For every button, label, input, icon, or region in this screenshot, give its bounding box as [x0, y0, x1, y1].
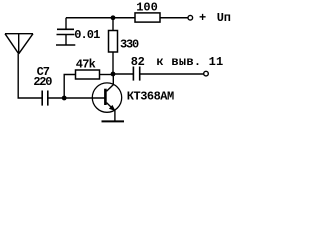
svg-text:82: 82 [131, 55, 145, 69]
transistor Q1 circle [92, 83, 121, 112]
svg-text:100: 100 [136, 1, 158, 15]
node base junction [62, 96, 67, 101]
wire 47k left lead down [64, 75, 75, 99]
svg-text:220: 220 [33, 75, 52, 89]
ground bar under emitter [102, 120, 125, 122]
capacitor C7 [42, 91, 48, 106]
wire C7 to base [49, 97, 106, 99]
transistor Q1 base bar [104, 89, 107, 105]
node top rail junction [111, 15, 116, 20]
wire top rail [66, 17, 135, 19]
capacitor 82 [133, 67, 139, 81]
capacitor 0.01 [57, 29, 75, 34]
wire emitter to ground [114, 111, 116, 121]
terminal +Un [188, 15, 193, 20]
svg-text:+: + [199, 11, 206, 25]
capacitor 0.01 bottom lead [65, 35, 67, 45]
antenna W1 [5, 34, 33, 54]
svg-text:Uп: Uп [217, 11, 231, 25]
terminal output [204, 71, 209, 76]
ground bar under 0.01 [56, 44, 75, 46]
svg-text:КТ368АМ: КТ368АМ [127, 90, 174, 104]
wire antenna to C7 [18, 54, 41, 98]
wire 82 cap to output terminal [140, 73, 204, 75]
wire 47k right lead [100, 74, 114, 76]
svg-text:330: 330 [120, 38, 139, 52]
svg-text:11: 11 [209, 55, 224, 69]
transistor Q1 emitter diagonal [107, 103, 115, 111]
resistor 47k [76, 70, 100, 79]
resistor 100 [135, 13, 160, 22]
svg-text:к выв.: к выв. [156, 55, 201, 69]
capacitor 0.01 top lead [65, 18, 67, 29]
svg-text:47k: 47k [76, 57, 96, 71]
resistor 330 top lead [112, 18, 114, 31]
wire collector vertical [112, 74, 114, 85]
resistor 330 [109, 31, 118, 53]
wire to +Un terminal [160, 17, 188, 19]
resistor 330 bottom lead [112, 52, 114, 74]
svg-text:0.01: 0.01 [74, 28, 100, 42]
node collector junction [111, 72, 116, 77]
transistor Q1 collector diagonal [107, 85, 114, 92]
transistor Q1 emitter arrow [109, 105, 116, 111]
wire collector node to 82 cap [113, 73, 133, 75]
